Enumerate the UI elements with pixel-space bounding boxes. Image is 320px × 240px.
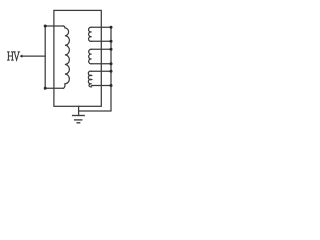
wire: secondary S2 bottom tap <box>92 63 112 65</box>
wire: secondary return bus <box>79 27 111 111</box>
inductor L3 secondary winding S2 <box>89 49 92 64</box>
inductor L4 secondary winding S3 <box>88 71 91 87</box>
junction: S2 top tap on bus <box>110 48 113 51</box>
wire: secondary S3 bottom tap <box>92 85 112 87</box>
wire: primary top lead <box>45 25 63 27</box>
junction: S2 bottom tap on bus <box>110 62 113 65</box>
junction: S1 top tap on bus <box>110 26 113 29</box>
wire: left bus vertical <box>44 26 46 88</box>
junction: S3 top tap on bus <box>110 70 113 73</box>
junction: primary bottom / left bus <box>44 87 47 90</box>
inductor L1 primary winding <box>63 26 69 88</box>
wire: HV output lead <box>22 55 46 57</box>
wire: secondary S2 top tap <box>92 48 112 50</box>
ground symbol <box>73 116 85 123</box>
wire: secondary S1 bottom tap <box>92 40 112 42</box>
junction: primary top / left bus <box>44 25 47 28</box>
wire: primary bottom lead <box>45 87 63 89</box>
junction: S3 bottom tap on bus <box>110 84 113 87</box>
wire: secondary S1 top tap <box>92 26 112 28</box>
junction: S1 bottom tap on bus <box>110 40 113 43</box>
enclosure box (transformer shield) <box>54 10 101 106</box>
node label HV <box>8 52 20 60</box>
wire: secondary S3 top tap <box>92 70 112 72</box>
inductor L2 secondary winding S1 <box>89 27 92 41</box>
wire: ground stub <box>78 106 80 115</box>
HV arrowhead <box>20 55 23 58</box>
